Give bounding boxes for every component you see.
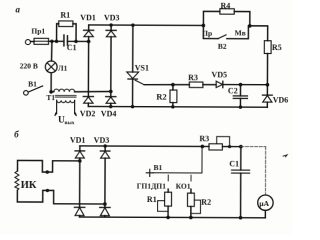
terminal input circuit a (25, 40, 30, 45)
node AC1 junction (87, 40, 91, 44)
svg-text:R2: R2 (156, 92, 166, 102)
svg-text:Пр1: Пр1 (31, 27, 45, 36)
IK coil zigzag (15, 171, 19, 190)
svg-text:VS1: VS1 (135, 63, 149, 72)
wire C1 to node AC1 (67, 40, 88, 42)
microammeter uA (258, 195, 273, 210)
wire rail to meter (faint) (241, 146, 266, 148)
lamp L1 220V (51, 41, 53, 61)
resistor R1 b with tap (167, 189, 169, 192)
capacitor C2 (239, 85, 241, 96)
bottom rail circuit b (80, 216, 266, 219)
resistor R3 b with tap (201, 145, 205, 149)
wire fuse to C1 (49, 40, 64, 42)
fuse Pr1 (34, 38, 49, 44)
wire primary to node AC2 (75, 90, 111, 93)
svg-text:R2: R2 (201, 198, 211, 207)
svg-text:VD5: VD5 (211, 70, 227, 79)
node AC1 b (78, 159, 82, 163)
svg-text:Мв: Мв (235, 29, 246, 38)
thyristor VS1 (131, 23, 134, 26)
svg-text:220 В: 220 В (20, 61, 38, 70)
induction coil IK block outline (17, 160, 79, 172)
svg-text:VD3: VD3 (104, 13, 120, 22)
svg-text:В2: В2 (218, 42, 227, 51)
small arrow mark right edge (283, 155, 287, 157)
svg-text:С2: С2 (228, 86, 238, 95)
svg-text:Пр: Пр (202, 29, 212, 38)
gate wire to R3 (144, 83, 189, 85)
junction C2 top (239, 83, 243, 87)
svg-text:μА: μА (259, 199, 269, 208)
svg-text:ДП1: ДП1 (151, 181, 166, 190)
svg-text:VD6: VD6 (273, 95, 289, 104)
diode VD6 (266, 85, 268, 95)
svg-text:VD3: VD3 (94, 136, 110, 145)
diode VD5 (216, 81, 223, 87)
capacitor C1 b (239, 145, 243, 149)
svg-text:R3: R3 (188, 73, 198, 82)
junction R4 branch right (248, 24, 252, 28)
capacitor C1 (63, 35, 65, 46)
contact B2 with Pr / Mv (203, 25, 218, 38)
electrode stubs (168, 175, 191, 181)
svg-text:В1: В1 (28, 80, 37, 89)
junction lamp branch (50, 40, 53, 43)
svg-text:вых: вых (64, 120, 74, 126)
resistor R4 (203, 11, 219, 25)
diode VD2 b (lower left) (74, 206, 84, 208)
resistor R2 b with tap (190, 189, 192, 193)
diode VD4 (110, 91, 112, 96)
svg-text:R1: R1 (60, 10, 70, 19)
svg-text:В1: В1 (154, 163, 163, 172)
svg-text:Л1: Л1 (58, 63, 68, 72)
svg-text:ГП1: ГП1 (137, 181, 152, 190)
node AC2 b (103, 202, 107, 206)
svg-text:VD2: VD2 (80, 109, 96, 118)
svg-text:КО1: КО1 (176, 182, 191, 191)
bottom rail circuit a (88, 105, 267, 108)
junction T1 primary left (49, 90, 53, 94)
junction R1 right (74, 40, 77, 43)
svg-text:R3: R3 (199, 134, 209, 143)
junction VD6 top (266, 83, 270, 87)
wire terminal to fuse (31, 40, 34, 42)
transformer T1 primary winding (51, 91, 54, 93)
wire to R5 (250, 26, 268, 41)
junction R1 left (55, 40, 58, 43)
svg-text:VD1: VD1 (70, 136, 86, 145)
resistor R2 (172, 85, 174, 90)
diode VD2 (87, 41, 89, 96)
button B1 b (146, 169, 153, 176)
diode VD1 (88, 25, 90, 31)
resistor R3 (189, 82, 203, 88)
diode VD3 b (104, 146, 106, 151)
node AC2 junction (109, 90, 113, 94)
resistor R5 (264, 41, 271, 54)
resistor R1 (57, 24, 59, 42)
svg-text:R1: R1 (147, 195, 157, 204)
svg-text:VD1: VD1 (80, 13, 96, 22)
svg-text:R4: R4 (220, 1, 230, 10)
transformer T1 secondary winding (57, 100, 75, 102)
diode VD4 b (lower right) (100, 206, 110, 208)
svg-text:R5: R5 (272, 43, 282, 52)
junction R4 branch left (202, 24, 206, 28)
diode VD1 b (79, 146, 81, 151)
transformer T1 core (55, 95, 76, 97)
svg-text:С1: С1 (229, 160, 239, 169)
svg-text:VD4: VD4 (101, 109, 117, 118)
switch B1 circuit a (24, 91, 29, 96)
top rail circuit a (89, 24, 204, 27)
svg-text:ИК: ИК (21, 180, 37, 191)
svg-text:а: а (15, 4, 20, 14)
svg-text:С1: С1 (67, 43, 77, 52)
diode VD3 (109, 23, 112, 26)
IK tap dots (46, 170, 49, 173)
svg-text:Т1: Т1 (46, 93, 55, 102)
svg-text:б: б (14, 129, 19, 139)
top rail circuit b (80, 145, 202, 148)
